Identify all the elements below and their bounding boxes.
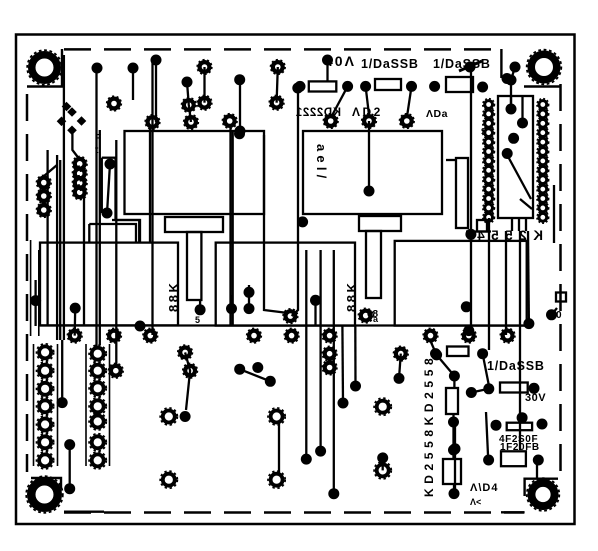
pad P6 (145, 115, 160, 130)
diode VD8 outline (446, 388, 458, 414)
via V58 (483, 383, 494, 394)
pad P1 (107, 96, 122, 111)
pad P11 (362, 114, 377, 129)
via V67 (483, 455, 494, 466)
wire w10 (30, 240, 32, 336)
diode VD7 outline (443, 459, 461, 484)
via V9 (342, 81, 353, 92)
wire w11 (38, 250, 40, 336)
pad P8 (271, 60, 286, 75)
pad PR3 (247, 328, 262, 343)
wire w13 (151, 60, 153, 335)
pad X2-5 (89, 413, 106, 430)
via V66 (537, 419, 548, 430)
pad U1-left-8 (483, 164, 495, 176)
wire w16 (239, 80, 241, 131)
pad PM3 (72, 185, 87, 200)
wire w85 (553, 185, 555, 243)
via V69 (450, 443, 461, 454)
wire w23 (326, 60, 328, 81)
pad U1-right-8 (537, 164, 549, 176)
svg-text:ΛD2: ΛD2 (352, 105, 383, 119)
svg-text:5: 5 (195, 315, 200, 325)
pad U1-right-12 (537, 202, 549, 214)
via V12 (429, 81, 440, 92)
relay K3 outline (40, 243, 178, 326)
wire w47 (521, 96, 523, 123)
pad P3 (197, 95, 212, 110)
svg-text:88K: 88K (344, 281, 359, 312)
via V48 (394, 373, 405, 384)
pad X1-5 (37, 416, 54, 433)
wire w41 (511, 218, 513, 231)
pad PR5 (322, 328, 337, 343)
via V57 (477, 348, 488, 359)
pad PM2 (72, 176, 87, 191)
via V33 (244, 303, 255, 314)
via V15 (510, 62, 521, 73)
wire w72 (471, 389, 489, 393)
corner notch top-left (27, 49, 62, 87)
via V49 (431, 349, 442, 360)
via V46 (328, 488, 339, 499)
via V4 (182, 77, 193, 88)
pad PM0 (72, 157, 87, 172)
wire w25 (331, 86, 348, 118)
wire w78 (101, 158, 103, 213)
wire w65 (89, 224, 136, 243)
svg-text:0: 0 (556, 310, 562, 321)
via V5 (234, 74, 245, 85)
via V43 (338, 398, 349, 409)
pad X2-3 (89, 380, 106, 397)
pad X1-4 (37, 398, 54, 415)
wire w68 (57, 344, 59, 466)
dashed keepout border top (64, 48, 503, 51)
via V22 (102, 208, 113, 219)
pad PL0 (37, 175, 52, 190)
pad U1-left-3 (483, 117, 495, 129)
wire w61 (452, 414, 454, 459)
svg-text:1/DaSSB: 1/DaSSB (361, 57, 419, 71)
wire w35 (382, 458, 384, 471)
via diamond D3 (67, 125, 77, 135)
via V44 (301, 454, 312, 465)
via V41 (265, 376, 276, 387)
wire w33 (314, 300, 316, 326)
wire w53 (185, 352, 190, 410)
wire w14 (229, 128, 231, 326)
via V38 (310, 295, 321, 306)
wire w67 (33, 344, 35, 466)
wire w19 (155, 60, 157, 122)
via V52 (461, 301, 472, 312)
pad U1-left-1 (483, 99, 495, 111)
wire w4 (99, 130, 101, 345)
pad X2-7 (89, 452, 106, 469)
wire w74 (552, 308, 558, 315)
via V56 (546, 309, 557, 320)
pad X2-1 (89, 345, 106, 362)
pad U1-right-10 (537, 183, 549, 195)
pad PR6 (423, 328, 438, 343)
relay K5 outline (395, 241, 527, 326)
wire w34 (399, 354, 401, 379)
via V21 (105, 159, 116, 170)
wire w21 (277, 67, 278, 103)
IC U1 outline (498, 96, 533, 218)
pad PR17 (358, 308, 373, 323)
wire w50 (69, 445, 71, 489)
via diamond D2 (67, 107, 77, 117)
svg-text:KD2558KD2558: KD2558KD2558 (422, 354, 436, 497)
wire w63 (454, 424, 456, 494)
relay K1 neck (187, 232, 201, 300)
wire w76 (102, 157, 116, 159)
pad PR1 (107, 328, 122, 343)
corner notch top-right (501, 49, 561, 87)
pad P9 (269, 95, 284, 110)
wire w8 (59, 160, 61, 340)
svg-text:K2554: K2554 (471, 228, 543, 243)
wire w51 (34, 280, 36, 326)
wire w37 (511, 67, 515, 109)
dashed keepout border right (559, 84, 562, 474)
wire w64 (112, 220, 140, 243)
pad U1-left-2 (483, 108, 495, 120)
via V39 (234, 364, 245, 375)
pad PR14 (178, 345, 193, 360)
wire w66 (72, 132, 80, 160)
wire w57 (199, 300, 201, 310)
wire w29 (319, 250, 321, 451)
wire w2 (88, 224, 90, 243)
via V51 (430, 348, 441, 359)
mounting hole bottom-right (527, 478, 560, 511)
corner notch bottom-left (31, 478, 104, 512)
via V2 (128, 63, 139, 74)
via V17 (477, 82, 488, 93)
relay K2 neck (366, 231, 381, 298)
svg-text:40Λ: 40Λ (325, 53, 356, 69)
via V27 (502, 148, 513, 159)
via V65 (517, 412, 528, 423)
svg-text:Λ\D4: Λ\D4 (470, 482, 498, 494)
svg-text:30V: 30V (525, 392, 546, 404)
svg-text:1F20FB: 1F20FB (500, 442, 540, 453)
wire w77 (116, 158, 140, 243)
via V10 (360, 81, 371, 92)
pad PR11 (322, 346, 337, 361)
wire w56 (230, 295, 232, 309)
relay K2 tab (359, 216, 401, 231)
via V32 (244, 287, 255, 298)
pad X2-4 (89, 398, 106, 415)
via V6 (235, 126, 246, 137)
via V26 (508, 133, 519, 144)
wire w30 (333, 250, 335, 494)
pad X1-1 (37, 344, 54, 361)
wire w39 (505, 231, 507, 335)
wire w81 (519, 231, 521, 450)
wire w40 (527, 231, 530, 324)
mounting hole top-right (527, 50, 562, 85)
wire w55 (248, 285, 250, 309)
wire w43 (525, 218, 527, 231)
resistor R7 outline (477, 220, 487, 232)
pad U1-right-1 (537, 99, 549, 111)
via V45 (315, 446, 326, 457)
pad U1-right-11 (537, 193, 549, 205)
wire w60 (453, 376, 455, 388)
pad PR7 (462, 328, 477, 343)
wire w18 (187, 82, 191, 122)
svg-text:1/DaSSB: 1/DaSSB (433, 57, 491, 71)
capacitor C1 outline (556, 293, 566, 302)
via V16 (506, 75, 517, 86)
pad U1-right-5 (537, 136, 549, 148)
svg-text:F: F (95, 133, 101, 144)
pad X1-7 (37, 452, 54, 469)
pad U1-left-10 (483, 183, 495, 195)
wire w52 (74, 308, 77, 336)
pad PM1 (72, 166, 87, 181)
svg-text:ΛDa: ΛDa (426, 108, 448, 120)
pad X1-3 (37, 380, 54, 397)
pad PR4 (284, 328, 299, 343)
via V47 (377, 452, 388, 463)
via V35 (64, 439, 75, 450)
pad U1-right-3 (537, 117, 549, 129)
wire w5 (115, 140, 117, 368)
wire w17 (203, 67, 205, 103)
via V14 (465, 62, 476, 73)
pad U1-right-13 (537, 211, 549, 223)
wire w70 (109, 344, 111, 466)
pad PR8 (500, 328, 515, 343)
pad H4 (268, 471, 285, 488)
pad P7 (222, 114, 237, 129)
dashed keepout border left (26, 94, 29, 472)
relay K1 tab (165, 217, 223, 232)
wire w24 (368, 121, 370, 191)
pad PR12 (322, 360, 337, 375)
pad PL2 (37, 203, 52, 218)
pad U1-left-9 (483, 174, 495, 186)
svg-text:88K: 88K (166, 281, 181, 312)
resistor R4 outline (456, 158, 468, 228)
wire w45 (520, 199, 532, 209)
pad U1-left-11 (483, 193, 495, 205)
wire w71 (240, 369, 271, 381)
via V18 (364, 186, 375, 197)
pad PR13 (394, 346, 409, 361)
diode VD9 outline (447, 347, 469, 357)
pad PR16 (109, 363, 124, 378)
wire w15 (232, 130, 234, 326)
wire w36 (470, 65, 472, 330)
wire w1 (95, 68, 97, 346)
pad P4 (182, 98, 197, 113)
wire w48 (466, 230, 491, 232)
wire w7 (56, 155, 58, 340)
pad P5 (184, 115, 199, 130)
wire w9 (63, 55, 65, 340)
via V24 (506, 104, 517, 115)
wire w54 (278, 423, 280, 473)
pad U1-right-4 (537, 127, 549, 139)
wire w20 (264, 135, 288, 313)
pad U1-left-4 (483, 127, 495, 139)
svg-text:ael/: ael/ (314, 144, 329, 182)
via V37 (180, 411, 191, 422)
pad P10 (323, 114, 338, 129)
dashed keepout border bottom (64, 511, 524, 514)
wire w28 (305, 250, 307, 459)
pad X2-2 (89, 362, 106, 379)
pad PL1 (37, 189, 52, 204)
wire w62 (453, 484, 455, 494)
resistor R1 outline (309, 81, 337, 91)
via V29 (70, 303, 81, 314)
wire w69 (85, 344, 87, 466)
pad X1-2 (37, 362, 54, 379)
wire w12 (149, 128, 151, 243)
wire w73 (483, 354, 489, 385)
pad H6 (374, 462, 391, 479)
wire w22 (292, 93, 298, 316)
pad P2 (197, 60, 212, 75)
wire w84 (459, 61, 482, 71)
wire w49 (61, 340, 63, 403)
wire w38 (488, 218, 490, 350)
via diamond D5 (62, 102, 72, 112)
pad PR10 (283, 309, 298, 324)
pad P12 (400, 114, 415, 129)
via V60 (529, 383, 540, 394)
mounting hole top-left (27, 50, 62, 85)
wire w6 (46, 150, 48, 326)
via V36 (64, 483, 75, 494)
via V25 (517, 118, 528, 129)
wire w83 (486, 412, 488, 455)
svg-text:Я: Я (481, 127, 487, 136)
via V50 (449, 371, 460, 382)
resistor R5 outline (507, 423, 532, 431)
pad H2 (268, 408, 285, 425)
pad PR15 (183, 363, 198, 378)
via V61 (448, 417, 459, 428)
wire w82 (536, 462, 538, 478)
svg-text:1/DaSSB: 1/DaSSB (487, 359, 545, 373)
via V7 (292, 83, 303, 94)
via diamond D1 (57, 116, 67, 126)
via V68 (533, 455, 544, 466)
pad PR2 (143, 328, 158, 343)
wire w80 (132, 68, 134, 100)
via V34 (57, 397, 68, 408)
via V13 (295, 81, 306, 92)
svg-text:KD2221: KD2221 (295, 107, 341, 119)
pad U1-right-2 (537, 108, 549, 120)
resistor R2 outline (375, 79, 401, 90)
wire w75 (446, 159, 456, 161)
wire w59 (431, 341, 437, 355)
mounting hole bottom-left (26, 476, 63, 513)
relay K1 outline (125, 131, 265, 214)
svg-text:Λ<: Λ< (470, 497, 481, 507)
via V42 (350, 381, 361, 392)
relay K4 outline (216, 243, 355, 326)
via V40 (252, 362, 263, 373)
pad U1-left-12 (483, 202, 495, 214)
via V8 (322, 55, 333, 66)
wire w86 (44, 165, 57, 176)
via V59 (466, 387, 477, 398)
pad U1-left-7 (483, 155, 495, 167)
wire w44 (507, 155, 531, 199)
relay K2 outline (303, 131, 442, 214)
via V63 (449, 488, 460, 499)
via V64 (491, 420, 502, 431)
corner notch bottom-right (501, 479, 558, 513)
wire w26 (366, 86, 369, 115)
pad H3 (160, 471, 177, 488)
via V55 (465, 229, 476, 240)
via V23 (502, 73, 513, 84)
via V31 (226, 303, 237, 314)
wire w79 (107, 164, 110, 213)
via V20 (297, 216, 308, 227)
via V11 (406, 81, 417, 92)
pad H1 (160, 408, 177, 425)
via V1 (92, 63, 103, 74)
pad H5 (374, 398, 391, 415)
via V19 (234, 128, 245, 139)
pad U1-left-13 (483, 211, 495, 223)
via V62 (448, 445, 459, 456)
via V28 (30, 295, 41, 306)
via V54 (523, 318, 534, 329)
via V53 (463, 325, 474, 336)
via V70 (135, 321, 146, 332)
wire w32 (354, 326, 357, 386)
resistor R3 outline (446, 77, 473, 92)
via diamond D4 (77, 116, 87, 126)
wire bus (40, 324, 527, 326)
pad U1-right-7 (537, 155, 549, 167)
wire w3 (83, 188, 85, 326)
wire w42 (518, 218, 520, 231)
pad X1-6 (37, 434, 54, 451)
pad U1-left-5 (483, 136, 495, 148)
wire w31 (341, 326, 344, 403)
resistor R6 outline (501, 451, 526, 466)
via V3 (151, 55, 162, 66)
pad U1-left-6 (483, 146, 495, 158)
pad X2-6 (89, 434, 106, 451)
wire w46 (510, 96, 512, 109)
diode VD5 outline (500, 383, 528, 393)
pad PR0 (67, 328, 82, 343)
wire w58 (437, 355, 455, 376)
via V30 (195, 304, 206, 315)
pad U1-right-6 (537, 146, 549, 158)
pad U1-right-9 (537, 174, 549, 186)
wire w27 (407, 86, 412, 118)
